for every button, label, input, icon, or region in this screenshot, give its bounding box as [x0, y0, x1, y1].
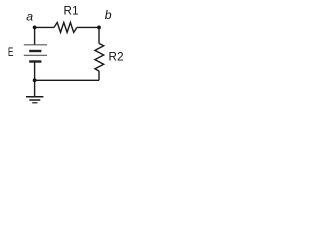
node b — [97, 26, 101, 30]
battery E plate long — [24, 54, 47, 56]
wire: ground stub — [34, 80, 36, 96]
wire: battery down to junction — [34, 62, 36, 81]
ground — [26, 97, 43, 103]
svg-text:R1: R1 — [64, 4, 79, 17]
battery E plate long top — [24, 44, 47, 46]
svg-text:b: b — [105, 8, 112, 22]
wire: R2 down to bottom wire — [98, 71, 100, 80]
svg-text:a: a — [26, 9, 33, 23]
resistor R2 — [95, 44, 104, 72]
wire: node a down to battery — [34, 27, 36, 44]
resistor R1 — [54, 23, 77, 33]
battery E plate short — [29, 50, 41, 52]
svg-text:R2: R2 — [109, 50, 124, 63]
node a — [33, 26, 37, 30]
wire: top from R1 to node b — [77, 26, 99, 28]
junction node — [33, 78, 37, 82]
wire: top from node a to R1 — [35, 26, 54, 28]
wire: node b down to R2 — [98, 27, 100, 43]
svg-text:E: E — [8, 46, 14, 59]
battery E plate short bottom — [29, 60, 41, 62]
wire: bottom from junction to R2 — [35, 79, 99, 81]
